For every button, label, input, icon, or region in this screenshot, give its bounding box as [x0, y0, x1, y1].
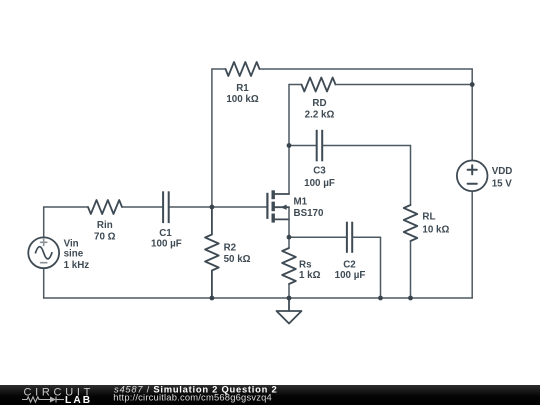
wire Vin top vertical	[43, 207, 45, 237]
svg-text:2.2 kΩ: 2.2 kΩ	[305, 109, 335, 120]
svg-text:10 kΩ: 10 kΩ	[422, 224, 449, 235]
label VDD	[492, 166, 513, 189]
node R2 bottom junction	[210, 296, 215, 301]
logo schematic glyph	[22, 397, 64, 403]
svg-text:C3: C3	[313, 166, 326, 177]
voltage source Vin plus	[41, 239, 47, 245]
svg-text:http://circuitlab.com/cm568g6g: http://circuitlab.com/cm568g6gsvzq4	[113, 392, 272, 403]
label Vin	[64, 239, 90, 271]
wire M1 source vertical to Rs	[288, 207, 290, 248]
resistor R1	[226, 62, 260, 76]
transistor M1 body line	[275, 206, 290, 208]
transistor M1 channel bars	[272, 190, 275, 222]
resistor R2	[205, 207, 219, 298]
transistor M1 drain stub	[275, 193, 289, 195]
wire RL top vertical	[410, 146, 412, 206]
capacitor C1	[163, 191, 169, 223]
wire bottom net	[44, 297, 473, 299]
capacitor C2	[347, 222, 352, 253]
wire VDD bottom vertical	[471, 191, 473, 298]
transistor M1 gate bar	[266, 193, 268, 219]
wire C1 right to M1 gate	[170, 206, 268, 208]
svg-text:50 kΩ: 50 kΩ	[224, 254, 251, 265]
label Rs	[299, 259, 321, 281]
voltage source VDD plus	[468, 165, 477, 174]
label C3	[304, 166, 335, 190]
svg-text:R2: R2	[224, 243, 237, 254]
wire C3 left lead	[289, 145, 316, 147]
svg-text:R1: R1	[236, 83, 249, 94]
svg-text:BS170: BS170	[294, 208, 325, 219]
node C2 bottom junction	[378, 296, 383, 301]
svg-text:C2: C2	[343, 259, 356, 270]
ground	[277, 298, 302, 324]
voltage source Vin circle	[28, 237, 59, 268]
wire drain vertical from RD to M1 drain	[288, 85, 290, 195]
wire RD left lead	[289, 84, 302, 86]
svg-text:RD: RD	[312, 98, 326, 109]
resistor Rin	[88, 200, 122, 214]
svg-text:15 V: 15 V	[492, 178, 513, 189]
label RD	[305, 98, 335, 121]
label C2	[335, 259, 366, 281]
svg-text:100 kΩ: 100 kΩ	[226, 94, 259, 105]
node gate junction	[210, 205, 215, 210]
svg-text:Rs: Rs	[299, 259, 312, 270]
label Rin	[94, 220, 116, 243]
wire Rin right to C1	[122, 206, 162, 208]
label C1	[151, 228, 182, 250]
wire C2 right lead	[353, 236, 380, 238]
wire C2 drop vertical	[380, 237, 382, 298]
svg-text:100 µF: 100 µF	[151, 239, 182, 250]
svg-text:1 kHz: 1 kHz	[64, 260, 90, 271]
label RL	[422, 212, 449, 236]
wire C3 right lead to RL top	[323, 145, 410, 147]
node RL bottom junction	[408, 296, 413, 301]
resistor RL	[404, 205, 418, 241]
svg-text:sine: sine	[64, 249, 84, 260]
wire top net R1 right to VDD corner	[260, 68, 473, 70]
svg-text:C1: C1	[159, 228, 172, 239]
transistor M1 source stub	[275, 218, 289, 220]
wire VDD top vertical	[471, 69, 473, 161]
wire RD right to VDD vertical	[336, 84, 473, 86]
wire Rs bottom vertical	[288, 284, 290, 298]
label R2	[224, 243, 251, 265]
svg-text:1 kΩ: 1 kΩ	[299, 270, 321, 281]
transistor M1 body arrow	[281, 205, 287, 210]
svg-text:100 µF: 100 µF	[335, 270, 366, 281]
node ground junction	[287, 296, 292, 301]
node RD VDD junction	[470, 82, 475, 87]
voltage source Vin sine	[36, 247, 52, 259]
svg-text:M1: M1	[294, 197, 308, 208]
wire top net R1 left lead	[212, 68, 226, 70]
voltage source VDD circle	[457, 161, 488, 192]
node source junction	[287, 235, 292, 240]
resistor Rs	[282, 248, 296, 284]
wire Vin bottom vertical	[43, 268, 45, 298]
label M1	[294, 197, 325, 219]
svg-text:Rin: Rin	[97, 220, 113, 231]
svg-text:70 Ω: 70 Ω	[94, 232, 116, 243]
node C3 left junction	[287, 143, 292, 148]
wire gate net from Vin to Rin	[44, 206, 88, 208]
label R1	[226, 83, 259, 105]
voltage source Vin minus	[41, 262, 47, 264]
wire R1 left vertical drop to gate net	[211, 69, 213, 207]
wire RL bottom vertical	[410, 241, 412, 298]
wire source net to C2	[289, 236, 346, 238]
svg-text:VDD: VDD	[492, 166, 513, 177]
svg-text:100 µF: 100 µF	[304, 178, 335, 189]
capacitor C3	[317, 130, 323, 162]
svg-text:LAB: LAB	[65, 395, 92, 405]
svg-text:RL: RL	[422, 212, 435, 223]
resistor RD	[302, 78, 336, 92]
voltage source VDD minus	[468, 183, 477, 185]
